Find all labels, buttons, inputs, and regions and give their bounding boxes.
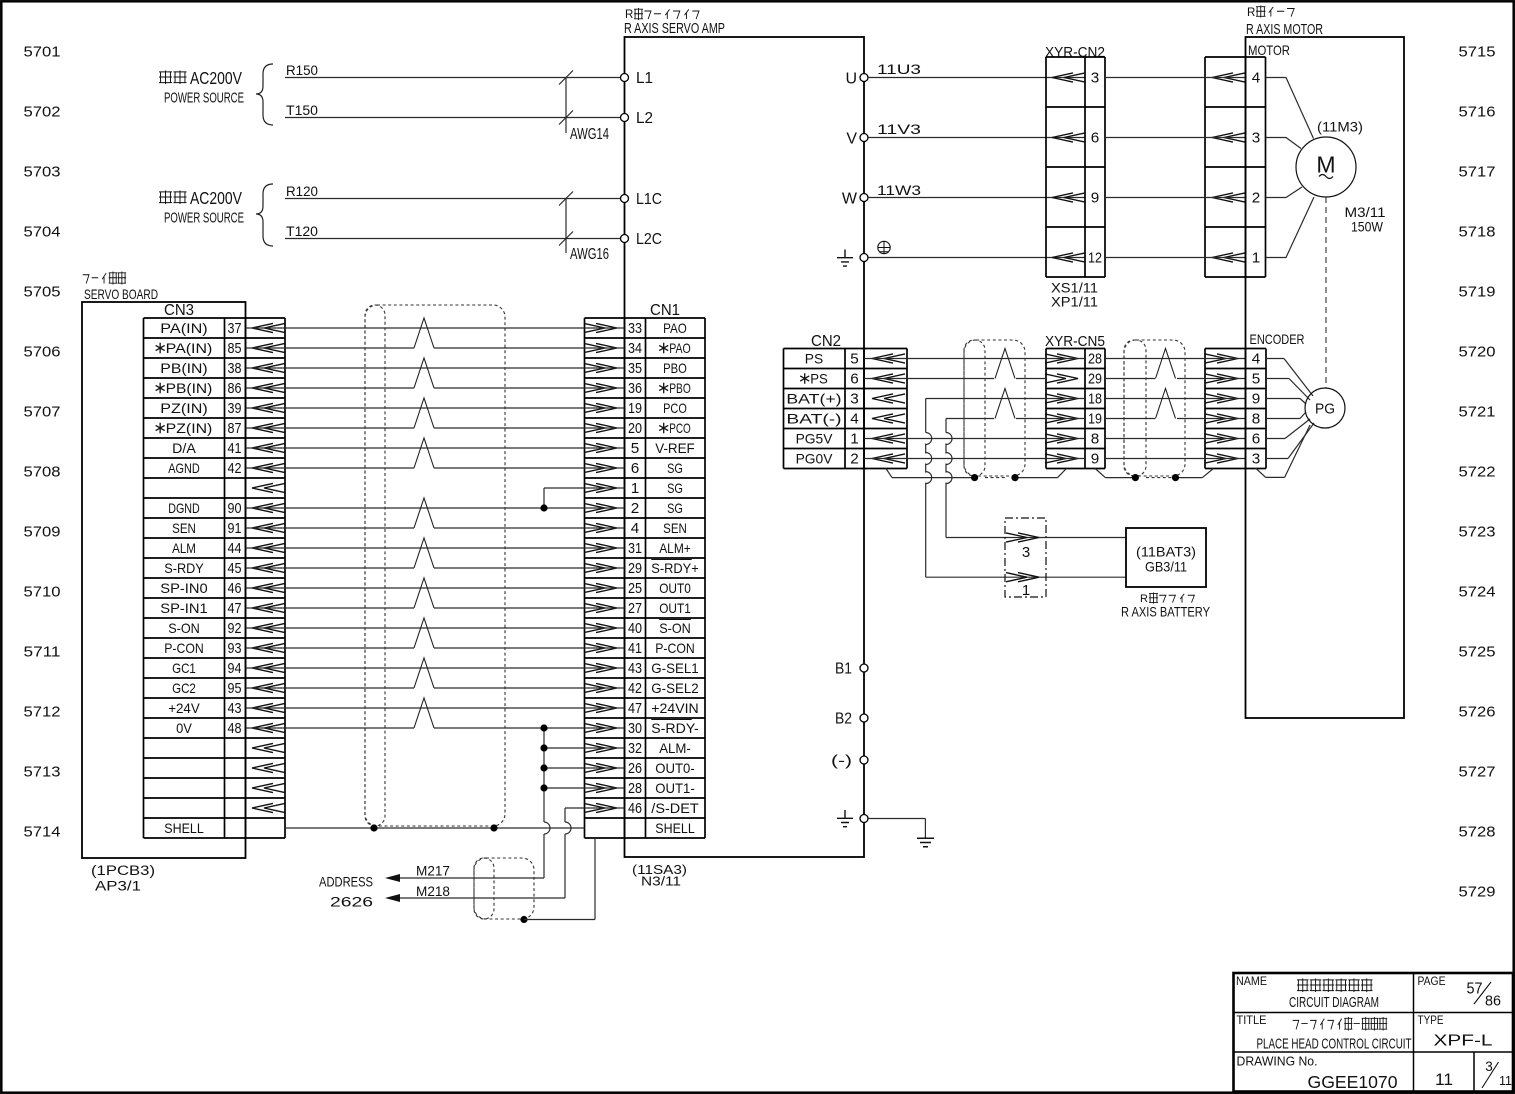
twisted pair symbol bbox=[1156, 389, 1176, 419]
terminal L1C bbox=[621, 191, 663, 208]
wire PZ(IN) CN3 to CN1 bbox=[246, 407, 625, 409]
terminal L2C bbox=[621, 231, 663, 248]
svg-text:5710: 5710 bbox=[24, 584, 61, 601]
svg-text:85: 85 bbox=[228, 340, 242, 357]
svg-text:1: 1 bbox=[850, 431, 859, 448]
svg-text:5705: 5705 bbox=[24, 284, 61, 301]
svg-text:11U3: 11U3 bbox=[877, 62, 921, 77]
wire SP-IN0 CN3 to CN1 bbox=[246, 587, 625, 589]
svg-text:5703: 5703 bbox=[24, 164, 61, 181]
svg-text:V-REF: V-REF bbox=[655, 440, 695, 456]
svg-text:GGEE1070: GGEE1070 bbox=[1308, 1072, 1398, 1092]
svg-text:+24VIN: +24VIN bbox=[651, 700, 698, 716]
svg-text:94: 94 bbox=[228, 660, 242, 677]
svg-text:PAO: PAO bbox=[669, 340, 691, 356]
svg-text:5711: 5711 bbox=[24, 644, 61, 661]
svg-text:6: 6 bbox=[631, 460, 640, 477]
svg-text:27: 27 bbox=[628, 600, 642, 617]
svg-text:R: R bbox=[625, 9, 633, 21]
svg-text:12: 12 bbox=[1088, 250, 1102, 267]
svg-text:PB(IN): PB(IN) bbox=[160, 360, 207, 376]
twisted pair symbol bbox=[414, 538, 434, 568]
svg-text:CN3: CN3 bbox=[164, 302, 194, 319]
svg-text:AWG14: AWG14 bbox=[570, 126, 609, 143]
svg-text:SG: SG bbox=[667, 500, 683, 516]
twisted pair symbol bbox=[414, 318, 434, 348]
svg-text:19: 19 bbox=[1088, 411, 1102, 428]
connector ENCODER bbox=[1205, 331, 1305, 469]
terminal B2 bbox=[835, 711, 868, 728]
svg-text:G-SEL2: G-SEL2 bbox=[651, 680, 699, 696]
svg-text:4: 4 bbox=[1252, 70, 1261, 87]
brace for power source 1 bbox=[256, 64, 273, 125]
svg-text:5718: 5718 bbox=[1459, 224, 1496, 241]
wire DGND CN3 to CN1 bbox=[246, 507, 625, 509]
junction 0V / OUT1- bbox=[540, 784, 547, 791]
svg-text:5729: 5729 bbox=[1459, 884, 1496, 901]
svg-text:R AXIS MOTOR: R AXIS MOTOR bbox=[1246, 22, 1323, 38]
terminal L1 bbox=[621, 70, 654, 87]
svg-text:9: 9 bbox=[1252, 391, 1261, 408]
svg-text:25: 25 bbox=[628, 580, 642, 597]
svg-text:86: 86 bbox=[1485, 994, 1501, 1010]
svg-text:XPF-L: XPF-L bbox=[1434, 1033, 1493, 1050]
svg-text:47: 47 bbox=[628, 700, 642, 717]
svg-text:XYR-CN5: XYR-CN5 bbox=[1045, 333, 1105, 350]
svg-text:M: M bbox=[1316, 152, 1335, 178]
svg-text:91: 91 bbox=[228, 520, 242, 537]
svg-text:5719: 5719 bbox=[1459, 284, 1496, 301]
svg-text:43: 43 bbox=[228, 700, 242, 717]
svg-text:XYR-CN2: XYR-CN2 bbox=[1045, 44, 1105, 61]
svg-text:BAT(-): BAT(-) bbox=[786, 411, 841, 427]
wire XYR-CN5 to ENCODER row 6 bbox=[1105, 458, 1246, 460]
svg-text:5708: 5708 bbox=[24, 464, 61, 481]
svg-text:2: 2 bbox=[850, 451, 859, 468]
svg-text:P-CON: P-CON bbox=[164, 640, 204, 656]
wire PG5V bbox=[864, 438, 1085, 440]
svg-text:ALM-: ALM- bbox=[659, 740, 691, 756]
wire encoder pin to PG bbox=[1266, 412, 1306, 419]
svg-text:W: W bbox=[842, 191, 858, 208]
svg-text:3: 3 bbox=[1252, 130, 1261, 147]
svg-text:8: 8 bbox=[1091, 431, 1100, 448]
wire 0V bus to CN1 OUT0- bbox=[544, 767, 625, 769]
wire R150 bbox=[285, 63, 620, 78]
connector CN2 on servo amp bbox=[784, 333, 908, 469]
twisted pair symbol bbox=[414, 658, 434, 688]
wire XYR-CN2 6 to MOTOR 3 bbox=[1105, 137, 1246, 139]
svg-text:SEN: SEN bbox=[663, 520, 687, 536]
svg-text:SP-IN0: SP-IN0 bbox=[160, 580, 208, 596]
svg-text:PA(IN): PA(IN) bbox=[160, 320, 207, 336]
svg-text:PS: PS bbox=[805, 351, 823, 367]
svg-text:92: 92 bbox=[228, 620, 242, 637]
svg-text:5716: 5716 bbox=[1459, 104, 1496, 121]
svg-text:OUT1: OUT1 bbox=[659, 600, 691, 616]
svg-text:B1: B1 bbox=[835, 661, 852, 678]
svg-text:SHELL: SHELL bbox=[164, 820, 204, 836]
wire encoder pin to PG bbox=[1266, 423, 1314, 459]
wire XYR-CN2 3 to MOTOR 4 bbox=[1105, 77, 1246, 79]
wire R120 bbox=[285, 184, 620, 199]
shield drain junction bbox=[971, 474, 978, 481]
svg-text:GC1: GC1 bbox=[172, 660, 196, 676]
twisted pair symbol bbox=[414, 438, 434, 468]
svg-text:(-): (-) bbox=[831, 754, 852, 770]
twisted pair symbol BAT bbox=[995, 389, 1015, 419]
wire 0V bus to CN1 OUT1- bbox=[544, 787, 625, 789]
junction on DGND/SG net bbox=[540, 504, 547, 511]
svg-text:33: 33 bbox=[628, 320, 642, 337]
svg-text:32: 32 bbox=[628, 740, 642, 757]
wire PA(IN) CN3 to CN1 bbox=[246, 327, 625, 329]
svg-text:5: 5 bbox=[1252, 371, 1261, 388]
wire PG0V bbox=[864, 458, 1085, 460]
svg-text:11: 11 bbox=[1499, 1073, 1512, 1088]
connector XYR-CN5 bbox=[1045, 333, 1105, 469]
svg-text:6: 6 bbox=[1252, 431, 1261, 448]
wire ALM CN3 to CN1 bbox=[246, 547, 625, 549]
svg-text:CIRCUIT DIAGRAM: CIRCUIT DIAGRAM bbox=[1289, 994, 1379, 1011]
svg-text:43: 43 bbox=[628, 660, 642, 677]
svg-text:40: 40 bbox=[628, 620, 642, 637]
svg-text:41: 41 bbox=[628, 640, 642, 657]
svg-text:1: 1 bbox=[1252, 250, 1261, 267]
svg-text:PCO: PCO bbox=[669, 420, 691, 436]
wire XYR-CN2 12 to MOTOR 1 bbox=[1105, 257, 1246, 259]
svg-text:B2: B2 bbox=[835, 711, 852, 728]
svg-text:95: 95 bbox=[228, 680, 242, 697]
svg-text:PAGE: PAGE bbox=[1418, 976, 1446, 988]
shield drain wire encoder side bbox=[1095, 469, 1213, 478]
svg-text:5704: 5704 bbox=[24, 224, 61, 241]
battery GB3/11 box (R AXIS BATTERY) bbox=[1121, 528, 1211, 620]
earth ground symbol bbox=[917, 838, 934, 846]
shield of CN3-CN1 cable (dashed) bbox=[365, 305, 505, 826]
svg-text:45: 45 bbox=[228, 560, 242, 577]
wire 0V bus to CN1 ALM- bbox=[544, 747, 625, 749]
twisted pair symbol bbox=[414, 498, 434, 528]
shield drain junction bbox=[1172, 474, 1179, 481]
svg-text:SG: SG bbox=[667, 480, 683, 496]
terminal (-) bbox=[831, 754, 868, 770]
svg-text:PZ(IN): PZ(IN) bbox=[160, 400, 207, 416]
svg-text:U: U bbox=[845, 71, 857, 88]
svg-text:29: 29 bbox=[628, 560, 642, 577]
wire GC1 CN3 to CN1 bbox=[246, 667, 625, 669]
svg-text:35: 35 bbox=[628, 360, 642, 377]
svg-text:4: 4 bbox=[631, 520, 640, 537]
wire CN1 pin1 SG jumper bbox=[544, 488, 625, 508]
wire XYR-CN5 to ENCODER row 1 bbox=[1105, 358, 1246, 360]
svg-text:POWER SOURCE: POWER SOURCE bbox=[164, 211, 244, 227]
svg-text:2: 2 bbox=[631, 500, 640, 517]
shield drain junction right bbox=[490, 824, 497, 831]
svg-text:AWG16: AWG16 bbox=[570, 246, 609, 263]
svg-text:26: 26 bbox=[628, 760, 642, 777]
wire PS bbox=[864, 358, 1085, 360]
wire from bottom ground terminal bbox=[868, 819, 925, 839]
svg-text:OUT0: OUT0 bbox=[659, 580, 691, 596]
svg-text:5715: 5715 bbox=[1459, 44, 1496, 61]
wire XYR-CN2 9 to MOTOR 2 bbox=[1105, 197, 1246, 199]
svg-text:D/A: D/A bbox=[172, 440, 196, 456]
svg-text:5720: 5720 bbox=[1459, 344, 1496, 361]
svg-text:R150: R150 bbox=[286, 63, 318, 78]
svg-text:11V3: 11V3 bbox=[877, 122, 921, 137]
wire encoder pin to PG bbox=[1266, 379, 1310, 401]
svg-text:XP1/11: XP1/11 bbox=[1051, 294, 1098, 310]
svg-text:S-ON: S-ON bbox=[659, 620, 691, 636]
svg-text:R: R bbox=[1247, 7, 1255, 19]
twisted pair symbol bbox=[414, 398, 434, 428]
wire S-RDY CN3 to CN1 bbox=[246, 567, 625, 569]
svg-text:5712: 5712 bbox=[24, 704, 61, 721]
svg-text:S-ON: S-ON bbox=[168, 620, 200, 636]
svg-text:PCO: PCO bbox=[663, 400, 687, 416]
svg-text:PLACE HEAD CONTROL CIRCUIT: PLACE HEAD CONTROL CIRCUIT bbox=[1257, 1036, 1412, 1053]
twisted pair symbol bbox=[414, 698, 434, 728]
twisted pair symbol bbox=[1156, 349, 1176, 379]
wire ground to XYR-CN2 bbox=[868, 257, 1085, 259]
svg-text:AGND: AGND bbox=[168, 460, 200, 476]
svg-text:R120: R120 bbox=[286, 184, 318, 199]
svg-text:PG: PG bbox=[1315, 401, 1335, 418]
wire encoder pin to PG bbox=[1266, 359, 1313, 397]
svg-text:L1: L1 bbox=[636, 70, 653, 87]
svg-text:2: 2 bbox=[1252, 190, 1261, 207]
svg-text:29: 29 bbox=[1088, 371, 1102, 388]
svg-text:ENCODER: ENCODER bbox=[1250, 331, 1305, 347]
svg-text:6: 6 bbox=[850, 371, 859, 388]
svg-text:11: 11 bbox=[1435, 1070, 1453, 1089]
twisted pair symbol bbox=[414, 578, 434, 608]
svg-text:48: 48 bbox=[228, 720, 242, 737]
wire SEN CN3 to CN1 bbox=[246, 527, 625, 529]
svg-text:5724: 5724 bbox=[1459, 584, 1496, 601]
svg-text:SHELL: SHELL bbox=[655, 820, 695, 836]
svg-text:42: 42 bbox=[228, 460, 242, 477]
svg-text:90: 90 bbox=[228, 500, 242, 517]
svg-text:ALM+: ALM+ bbox=[659, 540, 691, 556]
svg-text:PG0V: PG0V bbox=[796, 451, 833, 467]
protective earth symbol (circled) bbox=[878, 241, 890, 253]
wire encoder pin to PG bbox=[1266, 399, 1306, 405]
wire AGND CN3 to CN1 bbox=[246, 467, 625, 469]
terminal B1 bbox=[835, 661, 868, 678]
svg-text:46: 46 bbox=[628, 800, 642, 817]
svg-text:OUT1-: OUT1- bbox=[655, 780, 695, 796]
svg-text:31: 31 bbox=[628, 540, 642, 557]
svg-text:5707: 5707 bbox=[24, 404, 61, 421]
terminal L2 bbox=[621, 110, 654, 127]
wire XYR-CN5 to ENCODER row 3 bbox=[1105, 398, 1246, 400]
svg-text:+24V: +24V bbox=[168, 700, 200, 716]
svg-text:20: 20 bbox=[628, 420, 642, 437]
shield drain wire CN2 side bbox=[886, 469, 1066, 478]
svg-text:46: 46 bbox=[228, 580, 242, 597]
wire V 11V3 bbox=[868, 122, 1085, 138]
svg-text:SG: SG bbox=[667, 460, 683, 476]
terminal W bbox=[842, 191, 868, 208]
wire T120 bbox=[285, 224, 620, 239]
svg-text:3: 3 bbox=[850, 391, 859, 408]
cable mark AWG14 bbox=[559, 71, 609, 144]
svg-text:SERVO BOARD: SERVO BOARD bbox=[84, 286, 158, 302]
svg-text:AC200V: AC200V bbox=[190, 188, 242, 208]
power source 1 label (AC200V) bbox=[159, 68, 244, 107]
svg-text:P-CON: P-CON bbox=[655, 640, 695, 656]
svg-text:5723: 5723 bbox=[1459, 524, 1496, 541]
svg-text:AC200V: AC200V bbox=[190, 68, 242, 88]
dashed shaft link motor to encoder bbox=[1325, 197, 1327, 388]
terminal V bbox=[846, 131, 868, 148]
svg-text:5701: 5701 bbox=[24, 44, 61, 61]
svg-text:L2C: L2C bbox=[636, 231, 662, 248]
connector CN3 on servo board bbox=[144, 302, 286, 838]
wire D/A CN3 to CN1 bbox=[246, 447, 625, 449]
svg-text:OUT0-: OUT0- bbox=[655, 760, 695, 776]
power source 2 label (AC200V) bbox=[159, 188, 244, 227]
shield of encoder cable (dashed) bbox=[1124, 340, 1185, 478]
svg-text:CN2: CN2 bbox=[811, 333, 841, 350]
svg-text:PG5V: PG5V bbox=[796, 431, 833, 447]
svg-text:T120: T120 bbox=[286, 224, 318, 239]
wire BAT(+) from battery bbox=[926, 399, 1126, 578]
svg-text:BAT(+): BAT(+) bbox=[786, 391, 841, 407]
svg-text:S-RDY-: S-RDY- bbox=[651, 720, 699, 736]
svg-text:5: 5 bbox=[631, 440, 640, 457]
motor M1 (11M3) circle bbox=[1296, 120, 1386, 235]
svg-text:2626: 2626 bbox=[330, 894, 373, 910]
svg-text:(11BAT3): (11BAT3) bbox=[1136, 544, 1196, 560]
svg-text:POWER SOURCE: POWER SOURCE bbox=[164, 91, 244, 107]
svg-text:PB(IN): PB(IN) bbox=[166, 380, 213, 396]
svg-text:3: 3 bbox=[1091, 70, 1100, 87]
junction 0V / ALM- bbox=[540, 744, 547, 751]
label ADDRESS 2626 bbox=[319, 874, 373, 910]
junction 0V / S-RDY- bbox=[540, 724, 547, 731]
svg-text:5706: 5706 bbox=[24, 344, 61, 361]
svg-text:G-SEL1: G-SEL1 bbox=[651, 660, 699, 676]
svg-text:5709: 5709 bbox=[24, 524, 61, 541]
wire *PB(IN) CN3 to CN1 bbox=[246, 387, 625, 389]
wire *PS bbox=[864, 378, 1046, 380]
svg-text:5717: 5717 bbox=[1459, 164, 1496, 181]
svg-text:T150: T150 bbox=[286, 103, 318, 118]
svg-text:5722: 5722 bbox=[1459, 464, 1496, 481]
svg-text:5727: 5727 bbox=[1459, 764, 1496, 781]
connector XYR-CN2 bbox=[1045, 44, 1105, 310]
svg-text:TITLE: TITLE bbox=[1237, 1015, 1267, 1027]
wire *PZ(IN) CN3 to CN1 bbox=[246, 427, 625, 429]
wire P-CON CN3 to CN1 bbox=[246, 647, 625, 649]
motor unit box (R AXIS MOTOR) bbox=[1246, 6, 1405, 719]
wire XYR-CN5 to ENCODER row 5 bbox=[1105, 438, 1246, 440]
servo board box (1PCB3 AP3/1) bbox=[82, 272, 246, 894]
ground terminal of servo amp (bottom) bbox=[837, 810, 868, 827]
wire shield drain to CN1 shell bbox=[524, 838, 595, 920]
svg-text:(1PCB3): (1PCB3) bbox=[91, 863, 155, 878]
shield of CN2 cable (dashed) bbox=[964, 340, 1025, 478]
wire SHELL CN3 to CN1 bbox=[285, 827, 585, 829]
wire SP-IN1 CN3 to CN1 bbox=[246, 607, 625, 609]
svg-text:/S-DET: /S-DET bbox=[651, 800, 699, 816]
svg-text:ALM: ALM bbox=[172, 540, 196, 556]
shield drain junction left bbox=[370, 824, 377, 831]
svg-text:DRAWING No.: DRAWING No. bbox=[1237, 1054, 1318, 1069]
svg-text:ADDRESS: ADDRESS bbox=[319, 874, 373, 890]
battery connector (dash-dot box) bbox=[1005, 518, 1046, 599]
svg-text:M217: M217 bbox=[416, 864, 450, 879]
svg-text:PA(IN): PA(IN) bbox=[166, 340, 213, 356]
svg-text:M218: M218 bbox=[416, 884, 450, 899]
svg-text:38: 38 bbox=[228, 360, 242, 377]
svg-text:9: 9 bbox=[1091, 190, 1100, 207]
servo amplifier U=11SA3 box (R AXIS SERVO AMP) bbox=[624, 8, 864, 889]
svg-text:5702: 5702 bbox=[24, 104, 61, 121]
svg-text:PBO: PBO bbox=[669, 380, 691, 396]
svg-text:34: 34 bbox=[628, 340, 642, 357]
svg-text:19: 19 bbox=[628, 400, 642, 417]
wire /S-DET to M218 bbox=[388, 808, 625, 898]
svg-text:1: 1 bbox=[631, 480, 640, 497]
svg-text:41: 41 bbox=[228, 440, 242, 457]
wire PB(IN) CN3 to CN1 bbox=[246, 367, 625, 369]
svg-text:CN1: CN1 bbox=[650, 302, 680, 319]
cable mark AWG16 bbox=[559, 192, 609, 264]
left margin line numbers 5701-5714 bbox=[24, 44, 61, 841]
wire U 11U3 bbox=[868, 62, 1085, 78]
arrowhead M218 bbox=[385, 894, 400, 902]
wire GC2 CN3 to CN1 bbox=[246, 687, 625, 689]
0V bus vertical bbox=[544, 728, 550, 878]
wire W 11W3 bbox=[868, 183, 1085, 198]
wire 0V CN3 to CN1 bbox=[246, 727, 625, 729]
svg-text:5714: 5714 bbox=[24, 824, 61, 841]
svg-text:NAME: NAME bbox=[1236, 976, 1267, 988]
brace for power source 2 bbox=[256, 184, 273, 246]
svg-text:8: 8 bbox=[1252, 411, 1261, 428]
wire +24V CN3 to CN1 bbox=[246, 707, 625, 709]
svg-text:AP3/1: AP3/1 bbox=[95, 879, 141, 894]
svg-text:PS: PS bbox=[810, 371, 828, 387]
svg-text:0V: 0V bbox=[176, 720, 192, 736]
svg-text:5728: 5728 bbox=[1459, 824, 1496, 841]
twisted pair symbol bbox=[414, 618, 434, 648]
svg-text:SEN: SEN bbox=[172, 520, 196, 536]
ground terminal of servo amp (U V W side) bbox=[837, 250, 868, 267]
svg-text:3: 3 bbox=[1252, 451, 1261, 468]
wire M217 (0V bus to address) bbox=[388, 877, 544, 879]
wire T150 bbox=[285, 103, 620, 118]
svg-text:44: 44 bbox=[228, 540, 242, 557]
svg-text:9: 9 bbox=[1091, 451, 1100, 468]
svg-text:36: 36 bbox=[628, 380, 642, 397]
wire XYR-CN5 to ENCODER row 2 bbox=[1105, 378, 1246, 380]
title block bbox=[1234, 973, 1514, 1092]
arrowhead M217 bbox=[385, 874, 400, 882]
svg-text:PBO: PBO bbox=[663, 360, 687, 376]
svg-text:37: 37 bbox=[228, 320, 242, 337]
svg-text:PZ(IN): PZ(IN) bbox=[166, 420, 213, 436]
svg-text:N3/11: N3/11 bbox=[641, 874, 681, 889]
svg-text:1: 1 bbox=[1022, 582, 1030, 599]
svg-text:4: 4 bbox=[1252, 351, 1261, 368]
svg-text:DGND: DGND bbox=[168, 500, 200, 516]
svg-text:28: 28 bbox=[628, 780, 642, 797]
